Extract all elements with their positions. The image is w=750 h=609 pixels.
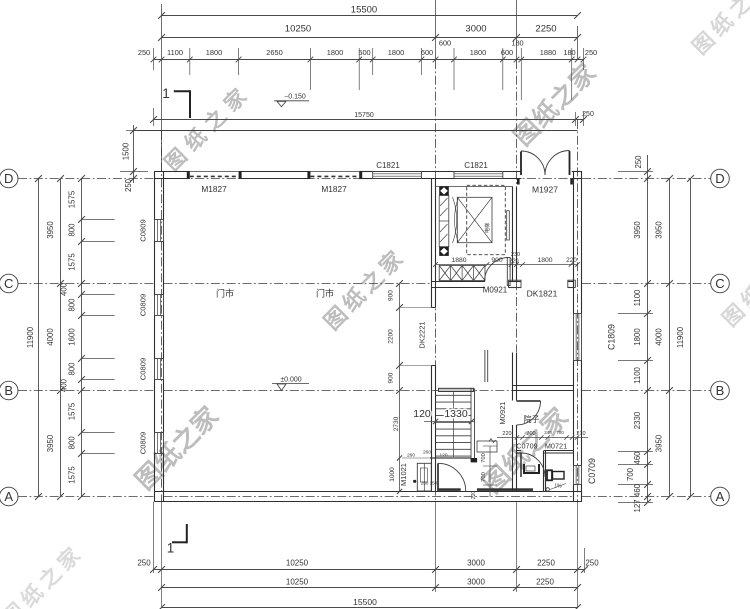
door M0921 upper leaf	[507, 258, 510, 286]
svg-text:180: 180	[563, 48, 575, 57]
svg-text:2250: 2250	[537, 559, 555, 568]
left wall	[154, 172, 156, 220]
curtain curves	[453, 197, 457, 243]
door M1021 leaf	[437, 463, 439, 491]
svg-text:M0721: M0721	[545, 442, 567, 451]
axis circle D right	[711, 169, 730, 188]
svg-text:3950: 3950	[633, 221, 642, 239]
stair bottom edge	[430, 457, 472, 459]
svg-text:C0809: C0809	[139, 219, 148, 241]
svg-text:C0809: C0809	[139, 294, 148, 316]
pipe duct dot	[413, 480, 416, 483]
extension line axis2 top	[435, 0, 437, 60]
svg-text:800: 800	[68, 298, 77, 312]
svg-text:D: D	[4, 171, 13, 186]
svg-text:2650: 2650	[266, 48, 282, 57]
extension line axis4 top	[577, 26, 579, 60]
interior wall C	[432, 281, 486, 283]
axis line 1 vertical	[161, 131, 163, 502]
svg-text:700: 700	[481, 472, 487, 482]
svg-text:3950: 3950	[655, 434, 664, 452]
svg-text:15500: 15500	[351, 5, 377, 16]
elevator inner box	[457, 197, 492, 242]
svg-text:250: 250	[138, 48, 150, 57]
door M1021 arc	[438, 463, 466, 491]
window C1821 left	[373, 171, 422, 173]
window C0809 #3	[154, 359, 156, 380]
window C0809 #2	[154, 295, 156, 316]
dim line 15500 top	[162, 15, 578, 17]
dim line stair side	[399, 391, 401, 492]
dim line toilet top	[497, 437, 588, 439]
svg-text:120: 120	[439, 453, 447, 459]
top wall end caps	[187, 172, 190, 179]
svg-text:C1809: C1809	[607, 324, 617, 350]
door M0921 lower leaf	[517, 400, 541, 402]
elevator dashed box	[467, 185, 506, 254]
axis circle B right	[711, 381, 730, 400]
dim line bottom row2	[162, 587, 578, 589]
axis circle C left	[0, 274, 18, 293]
grid line B interior	[164, 390, 514, 392]
svg-text:400: 400	[59, 282, 68, 296]
svg-text:250: 250	[137, 559, 151, 568]
window C1821 right	[454, 171, 503, 173]
svg-text:±0.000: ±0.000	[280, 377, 301, 384]
grid line A	[18, 496, 154, 498]
door M0721 arc	[521, 453, 545, 477]
svg-text:11900: 11900	[676, 326, 685, 348]
stair landing rail	[484, 350, 486, 382]
dim line 15750	[154, 119, 584, 121]
svg-text:A: A	[716, 489, 725, 504]
door M1827 left opening	[190, 171, 239, 173]
svg-text:250: 250	[585, 48, 597, 57]
svg-text:1100: 1100	[633, 289, 642, 306]
svg-text:M1827: M1827	[201, 184, 227, 194]
svg-text:1800: 1800	[327, 48, 343, 57]
flue column bottom	[439, 247, 449, 256]
svg-text:1330: 1330	[444, 408, 468, 420]
svg-text:700: 700	[626, 467, 635, 481]
stair handrail	[470, 389, 472, 462]
svg-text:700: 700	[481, 453, 487, 463]
svg-text:C0709: C0709	[587, 458, 597, 484]
svg-text:1880: 1880	[540, 48, 556, 57]
interior wall 1	[431, 179, 433, 308]
svg-text:1575: 1575	[68, 466, 77, 484]
right wall	[573, 172, 575, 314]
tick lines left detail	[82, 219, 115, 221]
dim column top-left	[133, 125, 135, 183]
svg-text:2250: 2250	[535, 24, 556, 35]
interior wall B	[513, 385, 574, 387]
dim line bottom row1	[154, 569, 585, 571]
grid line B	[18, 390, 154, 392]
svg-text:800: 800	[68, 436, 77, 450]
door M0921 upper arc	[485, 258, 509, 282]
svg-text:M1827: M1827	[321, 184, 347, 194]
dim column right 11900	[690, 179, 692, 497]
svg-text:250: 250	[582, 111, 594, 118]
door M1927 right leaf	[569, 151, 571, 175]
canopy edge line	[134, 130, 578, 132]
svg-text:1800: 1800	[388, 48, 404, 57]
stair dim line	[424, 421, 475, 423]
svg-text:院子: 院子	[524, 414, 540, 424]
svg-text:800: 800	[68, 362, 77, 376]
x-hatch strip	[439, 266, 485, 281]
door M0721 leaf	[520, 453, 522, 477]
axis circle A left	[0, 487, 18, 506]
extension lines bottom	[153, 502, 155, 574]
door sill stairs	[439, 488, 461, 491]
dim line second row top	[162, 37, 578, 39]
svg-text:1575: 1575	[68, 190, 77, 208]
svg-text:M0921: M0921	[483, 286, 508, 295]
dim column left 3950/4000/3950	[60, 179, 62, 497]
svg-text:230: 230	[511, 252, 520, 258]
svg-text:1100: 1100	[633, 366, 642, 383]
svg-text:M1927: M1927	[532, 185, 558, 195]
grid line D	[18, 178, 154, 180]
svg-text:900: 900	[388, 290, 395, 301]
svg-text:C1821: C1821	[464, 161, 488, 170]
svg-text:DK1821: DK1821	[527, 289, 558, 299]
svg-text:4000: 4000	[46, 328, 55, 346]
svg-text:D: D	[715, 171, 724, 186]
svg-text:1800: 1800	[537, 257, 552, 264]
elevator room beam line	[436, 186, 513, 188]
svg-text:260: 260	[407, 453, 415, 459]
grid line C	[18, 283, 154, 285]
svg-text:B: B	[4, 383, 13, 398]
svg-text:800: 800	[68, 223, 77, 237]
flue column top	[439, 186, 449, 195]
svg-text:C0809: C0809	[139, 432, 148, 454]
toilet wall horizontal	[517, 450, 522, 452]
grid line D interior	[164, 178, 574, 180]
svg-text:220: 220	[566, 257, 577, 264]
axis line 3 vertical	[516, 60, 518, 352]
svg-text:600: 600	[421, 48, 433, 57]
pipe duct	[417, 463, 431, 491]
opening DK2221 jambs	[432, 307, 436, 309]
svg-text:C0709: C0709	[516, 442, 538, 451]
toilet fixture left	[524, 464, 539, 473]
svg-text:C: C	[4, 276, 13, 291]
svg-text:−0.150: −0.150	[284, 94, 306, 101]
dim line bottom row3	[162, 607, 578, 609]
svg-text:1575: 1575	[68, 402, 77, 420]
svg-text:1575: 1575	[68, 253, 77, 271]
extension line axis3 top	[516, 0, 518, 60]
svg-text:220: 220	[471, 491, 477, 500]
door M1927 arcs	[521, 151, 545, 175]
svg-text:250: 250	[124, 178, 133, 192]
door M1827 right opening	[310, 171, 359, 173]
svg-text:400: 400	[59, 378, 68, 392]
svg-text:220: 220	[509, 259, 518, 265]
dim column left detail	[81, 179, 83, 497]
svg-text:门市: 门市	[316, 288, 334, 299]
door sill hall	[477, 488, 533, 491]
svg-text:3000: 3000	[465, 24, 486, 35]
svg-text:1880: 1880	[451, 257, 466, 264]
svg-text:M1021: M1021	[399, 463, 408, 486]
svg-text:260 150: 260 150	[421, 481, 438, 486]
svg-text:A: A	[4, 489, 13, 504]
svg-text:电梯: 电梯	[484, 223, 491, 233]
axis circle B left	[0, 381, 18, 400]
svg-text:3950: 3950	[46, 434, 55, 452]
svg-text:900: 900	[388, 372, 395, 383]
dim column left 11900	[38, 179, 40, 497]
svg-text:250: 250	[634, 155, 643, 169]
svg-text:1800: 1800	[470, 48, 486, 57]
window C0809 #4	[154, 433, 156, 454]
svg-text:700: 700	[526, 431, 535, 437]
svg-text:C1821: C1821	[376, 161, 400, 170]
axis line 2 vertical	[435, 60, 437, 500]
elevator door slot	[507, 211, 510, 240]
dim col toilet vertical	[489, 446, 491, 497]
interior wall 2	[512, 187, 514, 282]
stair top landing	[439, 388, 474, 391]
door M0921 lower arc	[517, 401, 541, 425]
svg-text:M0921: M0921	[498, 402, 507, 425]
dim column right detail	[647, 155, 649, 502]
extension line axis1 top	[161, 4, 163, 172]
svg-text:2200: 2200	[388, 329, 395, 344]
svg-text:500: 500	[358, 48, 370, 57]
svg-text:600: 600	[439, 39, 451, 48]
bottom wall	[155, 491, 583, 493]
extension lines 15750	[575, 112, 577, 126]
svg-text:250: 250	[585, 559, 599, 568]
door M1927 jambs	[517, 179, 520, 185]
svg-text:11900: 11900	[26, 326, 35, 348]
svg-text:15500: 15500	[353, 597, 377, 607]
svg-text:1600: 1600	[68, 328, 77, 346]
svg-text:3000: 3000	[467, 578, 485, 587]
svg-text:4000: 4000	[655, 328, 664, 346]
svg-text:10250: 10250	[285, 24, 311, 35]
svg-text:1800: 1800	[633, 328, 642, 346]
svg-text:120: 120	[413, 408, 431, 420]
svg-text:240: 240	[544, 430, 552, 435]
svg-text:10250: 10250	[286, 578, 309, 587]
svg-text:2730: 2730	[393, 416, 400, 431]
window C1809	[573, 314, 575, 361]
svg-text:210: 210	[576, 431, 585, 437]
stair up line	[453, 392, 455, 458]
stair treads	[436, 394, 472, 396]
svg-text:DK2221: DK2221	[418, 321, 427, 348]
dim line third row top	[154, 59, 584, 61]
axis circle A right	[711, 487, 730, 506]
svg-text:180: 180	[511, 39, 523, 48]
axis circle D left	[0, 169, 18, 188]
svg-text:C: C	[715, 276, 724, 291]
svg-text:1100: 1100	[167, 48, 183, 57]
opening DK1821 jamb blocks	[509, 280, 522, 287]
axis line 4 vertical	[577, 120, 579, 502]
svg-text:10250: 10250	[286, 559, 309, 568]
svg-text:1800: 1800	[206, 48, 222, 57]
toilet fixture right	[547, 470, 552, 480]
svg-text:1: 1	[162, 86, 170, 101]
svg-text:B: B	[716, 383, 725, 398]
svg-text:门市: 门市	[216, 288, 234, 299]
svg-text:3950: 3950	[46, 221, 55, 239]
window C0709	[573, 466, 575, 485]
dim line elevator	[436, 264, 578, 266]
svg-text:460: 460	[633, 483, 642, 497]
svg-text:2330: 2330	[633, 411, 642, 429]
svg-text:220: 220	[502, 431, 511, 437]
top wall	[154, 171, 190, 173]
shoe rect beside handrail	[477, 441, 497, 452]
axis circle C right	[711, 274, 730, 293]
flue shaft	[439, 196, 449, 247]
svg-text:C0809: C0809	[139, 358, 148, 380]
toilet wall divider	[543, 451, 545, 492]
svg-text:260: 260	[423, 450, 431, 456]
svg-text:2250: 2250	[536, 578, 554, 587]
svg-text:1500: 1500	[122, 142, 131, 160]
dim extension lines top	[189, 48, 191, 75]
svg-text:1000: 1000	[389, 467, 396, 482]
svg-text:700: 700	[556, 430, 564, 435]
grid line C interior	[164, 283, 432, 285]
dim column DK2221	[399, 284, 401, 391]
svg-text:15750: 15750	[354, 112, 374, 119]
svg-text:127: 127	[633, 499, 642, 512]
svg-text:3000: 3000	[467, 559, 485, 568]
dim column right 3950/4000/3950	[669, 179, 671, 497]
door M1927 left leaf	[520, 152, 522, 176]
tick lines right detail	[618, 171, 653, 173]
svg-text:3950: 3950	[655, 221, 664, 239]
svg-text:460: 460	[633, 451, 642, 465]
window C0809 #1	[154, 220, 156, 242]
grid line A interior	[164, 496, 574, 498]
